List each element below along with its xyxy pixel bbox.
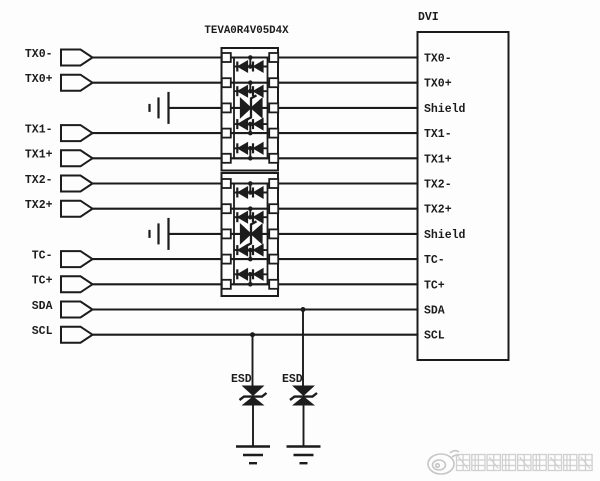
svg-text:TX2+: TX2+ (25, 199, 53, 212)
svg-text:ESD: ESD (282, 373, 303, 386)
svg-text:TX1-: TX1- (25, 123, 53, 136)
svg-text:TC-: TC- (32, 249, 53, 262)
svg-text:TX0+: TX0+ (424, 78, 452, 91)
svg-text:Shield: Shield (424, 103, 466, 116)
svg-text:TX1+: TX1+ (25, 149, 53, 162)
svg-text:SCL: SCL (32, 325, 53, 338)
svg-text:TC-: TC- (424, 254, 445, 267)
svg-text:SDA: SDA (32, 300, 53, 313)
svg-text:DVI: DVI (418, 11, 439, 24)
svg-text:TX1-: TX1- (424, 128, 452, 141)
svg-text:SDA: SDA (424, 305, 445, 318)
svg-text:TEVA0R4V05D4X: TEVA0R4V05D4X (204, 25, 289, 37)
svg-text:TX1+: TX1+ (424, 153, 452, 166)
svg-text:TC+: TC+ (424, 279, 445, 292)
svg-text:TX2-: TX2- (25, 174, 53, 187)
svg-text:TX0+: TX0+ (25, 73, 53, 86)
svg-text:TX0-: TX0- (25, 48, 53, 61)
svg-text:SCL: SCL (424, 330, 445, 343)
svg-text:ESD: ESD (231, 373, 252, 386)
svg-text:TX2-: TX2- (424, 179, 452, 192)
svg-text:Shield: Shield (424, 229, 466, 242)
svg-text:TX2+: TX2+ (424, 204, 452, 217)
svg-text:TC+: TC+ (32, 275, 53, 288)
svg-text:TX0-: TX0- (424, 53, 452, 66)
